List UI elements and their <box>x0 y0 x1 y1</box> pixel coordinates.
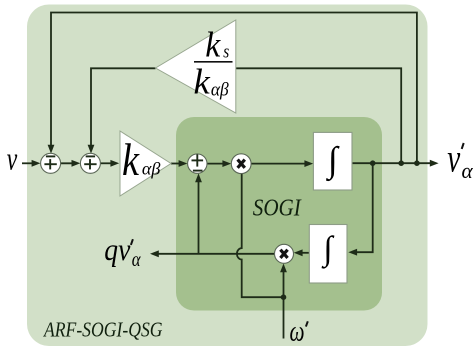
arrowhead T1 to S3 <box>179 160 188 167</box>
svg-text:ω: ω <box>290 315 305 348</box>
wire multiplier X2 output to qv'a <box>154 253 275 255</box>
svg-text:v: v <box>447 136 460 181</box>
svg-text:k: k <box>122 135 140 185</box>
gain T1 k_ab <box>120 131 171 196</box>
svg-text:k: k <box>194 61 211 101</box>
svg-text:s: s <box>223 42 229 63</box>
wire summer S1 to summer S2 <box>61 162 77 164</box>
svg-text:α: α <box>462 158 474 183</box>
svg-text:ARF-SOGI-QSG: ARF-SOGI-QSG <box>42 317 162 341</box>
wire gain T1 to summer S3 <box>171 163 179 165</box>
wire X1 bottom with hop over qv'a line <box>237 174 284 298</box>
wire integrator I2 to multiplier X2 <box>298 252 310 254</box>
svg-text:αβ: αβ <box>142 159 161 179</box>
wire ks feedback left segment <box>91 68 156 149</box>
arrowhead into S2 top <box>88 145 95 154</box>
summer S1 <box>41 153 61 173</box>
wire summer S2 to gain T1 <box>101 162 117 164</box>
arrowhead S3 to X1 <box>222 160 231 167</box>
integrator I1 <box>313 132 352 190</box>
integrator I2 <box>309 225 347 284</box>
wire output line to v'a <box>352 162 435 164</box>
wire input v to summer S1 <box>22 162 37 164</box>
wire summer S3 to multiplier X1 <box>207 163 228 165</box>
node dot output to ks loop <box>398 160 404 166</box>
node dot output to I2 <box>370 160 376 166</box>
arrowhead S1 to S2 <box>72 160 81 167</box>
wire multiplier X1 to integrator I1 <box>251 163 310 165</box>
wire ks feedback right segment <box>236 68 401 163</box>
wire top feedback loop <box>51 13 417 164</box>
summer S2 <box>80 153 100 173</box>
summer S3 plus-minus <box>188 154 207 173</box>
arrowhead omega into X2 bottom <box>280 264 287 273</box>
arrowhead input v <box>32 160 41 167</box>
inner SOGI region <box>176 117 382 311</box>
arrowhead branch into S3 bottom <box>195 173 202 182</box>
arrowhead X1 to I1 <box>304 160 313 167</box>
arrowhead output v'a <box>430 160 439 167</box>
wire output down to integrator I2 <box>352 163 373 252</box>
arrowhead into I2 right <box>348 249 357 256</box>
arrowhead I2 to X2 <box>294 249 303 256</box>
wire omega input up to multiplier X2 <box>283 268 285 339</box>
arrowhead S2 to T1 <box>110 160 119 167</box>
gain T2 ks/kab <box>156 20 236 113</box>
arrowhead qv'a output <box>150 250 159 257</box>
svg-text:qv: qv <box>104 231 131 267</box>
multiplier X1 <box>231 154 251 174</box>
svg-text:αβ: αβ <box>211 79 229 100</box>
multiplier X2 <box>275 244 294 263</box>
arrowhead into S1 top <box>48 145 55 154</box>
svg-text:α: α <box>132 249 141 271</box>
svg-text:k: k <box>205 24 221 64</box>
node dot output to top loop <box>414 160 420 166</box>
wire branch up to summer S3 <box>198 178 200 254</box>
node dot omega branch <box>281 294 287 300</box>
svg-text:v: v <box>7 142 18 178</box>
svg-text:SOGI: SOGI <box>253 195 302 221</box>
